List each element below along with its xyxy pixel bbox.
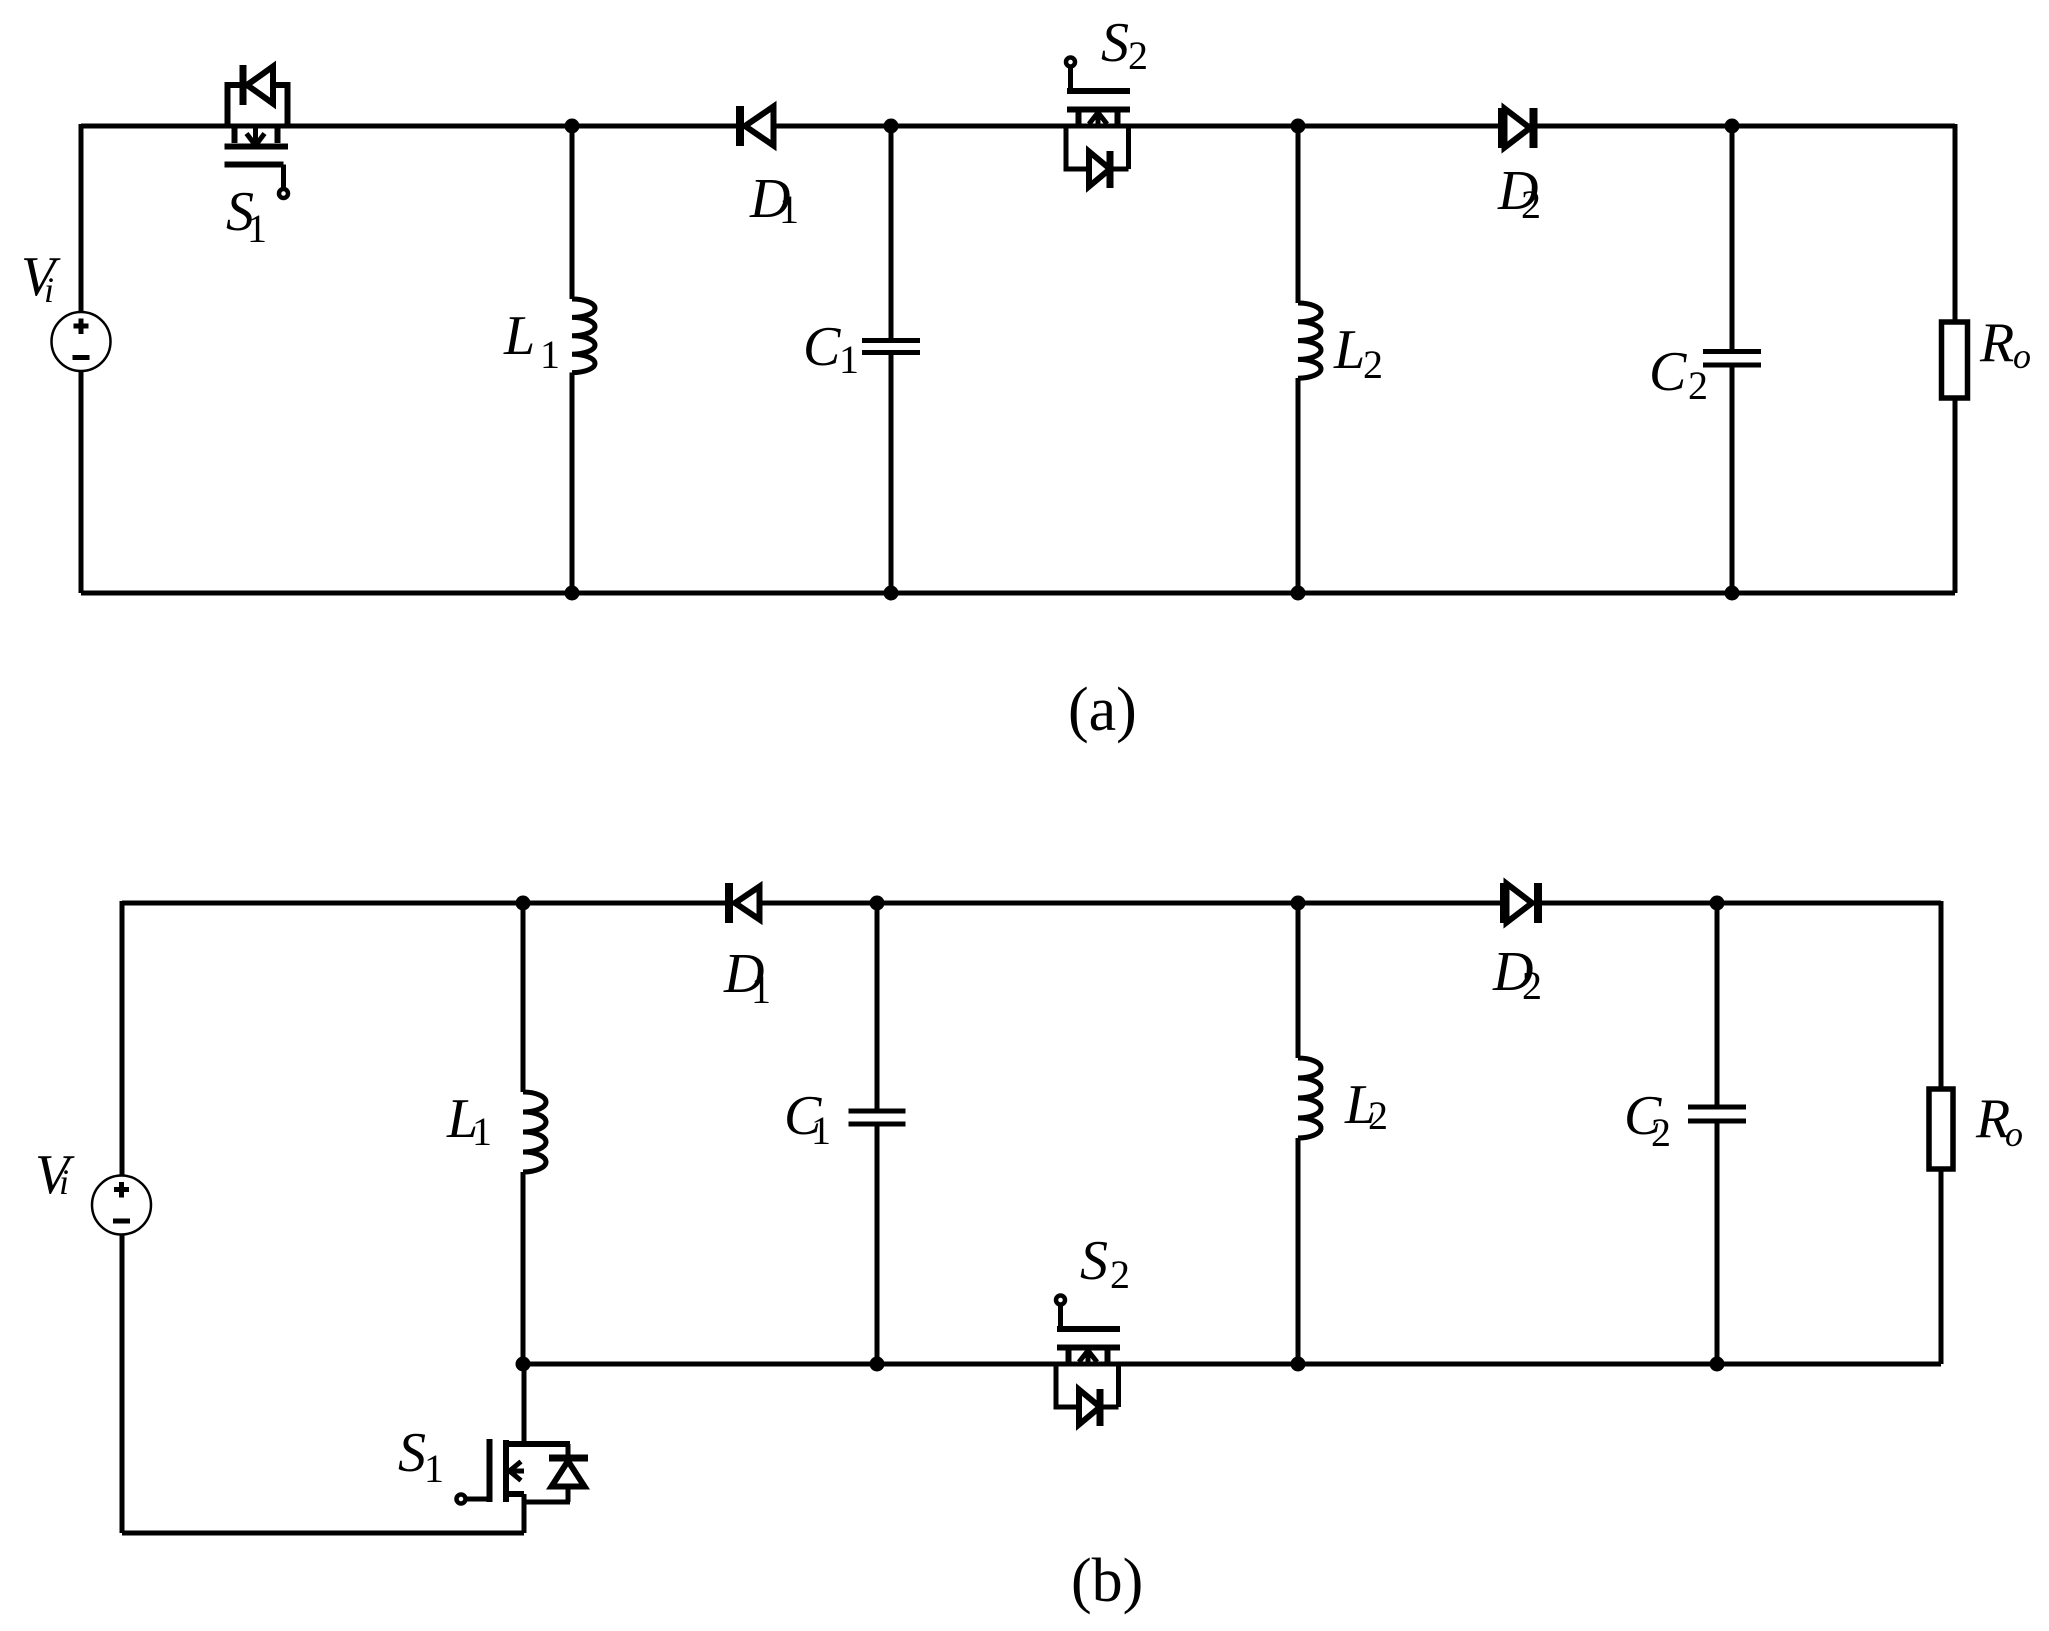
label C2 (b) xyxy=(1624,1085,1671,1155)
wire: (b) right output branch upper xyxy=(1939,901,1944,1090)
junction: (a) node C1 bottom xyxy=(884,586,899,601)
wire: (a) left input branch lower segment xyxy=(79,370,84,593)
svg-text:L: L xyxy=(503,305,535,367)
capacitor C1 (a) xyxy=(862,341,920,353)
label Vi (b) xyxy=(35,1144,75,1206)
svg-text:R: R xyxy=(1979,312,2014,374)
voltage source Vi (b) xyxy=(92,1176,151,1235)
svg-text:2: 2 xyxy=(1522,963,1542,1008)
label S1 (b) xyxy=(398,1422,444,1491)
label L2 (b) xyxy=(1344,1074,1388,1138)
label L1 (b) xyxy=(446,1088,492,1154)
wire: (b) L2 branch upper xyxy=(1296,903,1301,1058)
label D2 (b) xyxy=(1492,941,1542,1008)
label L1 (a) xyxy=(503,305,560,377)
junction: (a) node L2 top xyxy=(1291,119,1306,134)
svg-text:1: 1 xyxy=(424,1446,444,1491)
svg-text:V: V xyxy=(21,246,61,308)
svg-text:i: i xyxy=(44,270,54,310)
wire: (a) C1 branch lower xyxy=(889,355,894,593)
wire: (a) C1 branch upper xyxy=(889,126,894,338)
svg-text:C: C xyxy=(1649,341,1687,403)
wire: (a) L2 branch upper xyxy=(1296,126,1301,303)
svg-text:1: 1 xyxy=(540,332,560,377)
svg-text:S: S xyxy=(1101,12,1129,74)
wire: (a) C2 branch upper xyxy=(1730,126,1735,349)
junction: (a) node C2 top xyxy=(1725,119,1740,134)
svg-text:2: 2 xyxy=(1368,1093,1388,1138)
junction: (b) node L2 top xyxy=(1291,896,1306,911)
svg-text:(b): (b) xyxy=(1071,1547,1143,1615)
inductor L2 (b) xyxy=(1298,1058,1321,1138)
wire: (b) L1 branch lower xyxy=(521,1172,526,1364)
wire: (b) C2 branch lower xyxy=(1715,1123,1720,1364)
diode D2 (b) xyxy=(1504,883,1538,923)
wire: (b) left input branch upper segment xyxy=(120,901,125,1177)
junction: (a) node L1 top xyxy=(565,119,580,134)
label D1 (a) xyxy=(749,168,799,232)
label Ro (b) xyxy=(1975,1088,2023,1154)
resistor Ro (a) xyxy=(1942,322,1968,398)
label Ro (a) xyxy=(1979,312,2031,376)
svg-text:o: o xyxy=(2013,336,2031,376)
junction: (a) node L2 bottom xyxy=(1291,586,1306,601)
svg-text:L: L xyxy=(1333,319,1365,381)
svg-text:1: 1 xyxy=(751,967,771,1012)
svg-text:S: S xyxy=(1080,1230,1108,1292)
transistor S1 (a) MOSFET with body diode xyxy=(225,65,289,198)
label L2 (a) xyxy=(1333,319,1383,387)
voltage source Vi (a) xyxy=(52,312,111,371)
svg-text:1: 1 xyxy=(247,206,267,251)
wire: (a) bottom rail xyxy=(81,591,1955,596)
wire: (a) L2 branch lower xyxy=(1296,378,1301,593)
junction: (a) node C2 bottom xyxy=(1725,586,1740,601)
junction: (b) node C1 top xyxy=(870,896,885,911)
svg-text:2: 2 xyxy=(1688,363,1708,408)
wire: (a) top rail xyxy=(81,124,1955,129)
wire: (a) C2 branch lower xyxy=(1730,367,1735,593)
svg-text:2: 2 xyxy=(1651,1110,1671,1155)
label C2 (a) xyxy=(1649,341,1708,408)
diode D1 (a) xyxy=(740,106,774,146)
wire: (a) L1 branch upper xyxy=(570,126,575,299)
junction: (b) node C1 bottom xyxy=(870,1357,885,1372)
inductor L2 (a) xyxy=(1298,303,1321,378)
wire: (b) left input branch lower segment xyxy=(120,1234,125,1533)
svg-text:1: 1 xyxy=(811,1108,831,1153)
svg-text:i: i xyxy=(59,1162,69,1202)
junction: (a) node C1 top xyxy=(884,119,899,134)
svg-text:1: 1 xyxy=(472,1109,492,1154)
wire: (b) C2 branch upper xyxy=(1715,903,1720,1105)
wire: (a) L1 branch lower xyxy=(570,373,575,594)
caption (a) xyxy=(1068,676,1137,744)
inductor L1 (a) xyxy=(572,299,595,373)
junction: (b) node C2 bottom xyxy=(1710,1357,1725,1372)
transistor S1 (b) MOSFET with body diode xyxy=(457,1364,589,1533)
capacitor C1 (b) xyxy=(849,1111,906,1124)
transistor S2 (a) MOSFET with body diode xyxy=(1066,58,1130,189)
label D1 (b) xyxy=(723,943,771,1012)
svg-text:2: 2 xyxy=(1128,33,1148,78)
wire: (b) top rail xyxy=(122,901,1941,906)
svg-text:S: S xyxy=(398,1422,426,1484)
svg-text:C: C xyxy=(803,316,841,378)
wire: (a) left input branch upper segment xyxy=(79,124,84,313)
diode D2 (a) xyxy=(1502,108,1534,148)
caption (b) xyxy=(1071,1547,1143,1615)
wire: (a) right output branch upper xyxy=(1953,124,1958,324)
label C1 (b) xyxy=(784,1085,831,1153)
transistor S2 (b) MOSFET with body diode xyxy=(1056,1296,1120,1427)
label C1 (a) xyxy=(803,316,859,382)
wire: (b) middle rail xyxy=(523,1362,1941,1367)
svg-text:1: 1 xyxy=(779,187,799,232)
wire: (b) L1 branch upper xyxy=(521,903,526,1092)
capacitor C2 (a) xyxy=(1703,352,1761,366)
label S2 (a) xyxy=(1101,12,1148,78)
capacitor C2 (b) xyxy=(1688,1107,1746,1121)
wire: (b) bottom rail xyxy=(122,1531,524,1536)
wire: (a) right output branch lower xyxy=(1953,396,1958,593)
junction: (b) node L2 bottom xyxy=(1291,1357,1306,1372)
label S1 (a) xyxy=(226,181,267,251)
junction: (a) node L1 bottom xyxy=(565,586,580,601)
junction: (b) node L1 top xyxy=(516,896,531,911)
label S2 (b) xyxy=(1080,1230,1130,1297)
svg-text:2: 2 xyxy=(1521,182,1541,227)
svg-text:o: o xyxy=(2005,1114,2023,1154)
wire: (b) C1 branch upper xyxy=(875,903,880,1109)
svg-text:2: 2 xyxy=(1110,1252,1130,1297)
wire: (b) L2 branch lower xyxy=(1296,1138,1301,1364)
wire: (b) C1 branch lower xyxy=(875,1126,880,1364)
label Vi (a) xyxy=(21,246,61,310)
label D2 (a) xyxy=(1497,160,1541,227)
wire: (b) right output branch lower xyxy=(1939,1169,1944,1364)
svg-text:2: 2 xyxy=(1363,342,1383,387)
junction: (b) node C2 top xyxy=(1710,896,1725,911)
resistor Ro (b) xyxy=(1929,1089,1953,1169)
svg-text:1: 1 xyxy=(839,337,859,382)
diode D1 (b) xyxy=(729,883,760,923)
svg-text:(a): (a) xyxy=(1068,676,1137,744)
inductor L1 (b) xyxy=(523,1092,546,1172)
junction: (b) node L1 / S1 drain xyxy=(516,1357,531,1372)
